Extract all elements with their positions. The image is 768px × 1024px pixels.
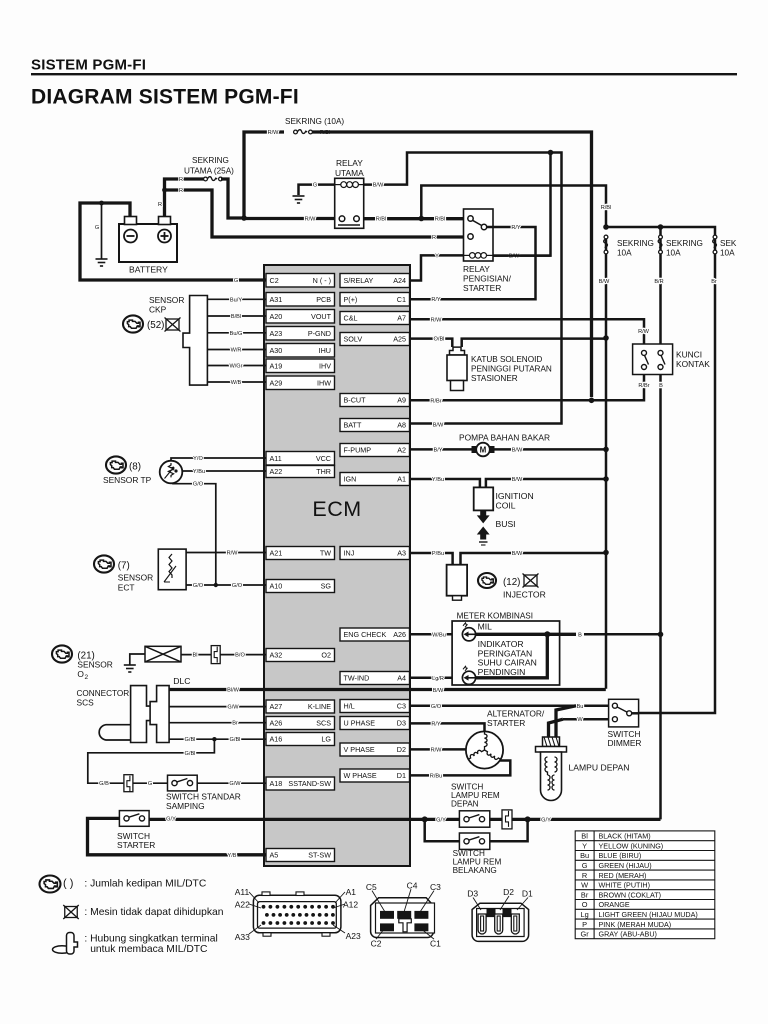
svg-text:R/Bl: R/Bl	[435, 217, 446, 223]
connector A 33-pin	[253, 892, 341, 936]
wire fuse1 B/W down	[605, 254, 608, 689]
svg-text:G/Bl: G/Bl	[230, 737, 241, 743]
svg-text:Bu: Bu	[577, 704, 584, 710]
svg-text:G/Bl: G/Bl	[185, 751, 196, 757]
svg-text:( ): ( )	[63, 878, 73, 890]
switch SW5 standar samping	[168, 775, 198, 791]
svg-text:P: P	[582, 920, 587, 929]
ECM main block	[264, 265, 410, 866]
svg-text:B/W: B/W	[433, 423, 444, 429]
svg-text:A21: A21	[270, 549, 283, 558]
svg-text:10A: 10A	[720, 249, 735, 258]
svg-text:A1: A1	[397, 475, 406, 484]
wire TP VCC Y/O	[171, 458, 266, 461]
ECM pin A26 SCS	[266, 717, 335, 730]
svg-text:G: G	[234, 278, 238, 284]
wire relay starter R/Y to C1	[410, 227, 536, 299]
svg-text:A22: A22	[235, 900, 250, 910]
svg-text:IHV: IHV	[319, 361, 331, 370]
switch dimmer SW4	[609, 699, 639, 727]
wire O2 B/O	[220, 654, 266, 656]
svg-text:TW: TW	[320, 549, 331, 558]
svg-text:R/Y: R/Y	[431, 297, 441, 303]
wire C3 H/L to dimmer	[410, 705, 609, 708]
wire A9 B-CUT to kunci kontak	[410, 367, 645, 400]
ECM pin A21 TW	[266, 547, 335, 560]
svg-text:STARTER: STARTER	[117, 840, 155, 850]
wire CKP Bu/G	[207, 332, 266, 334]
svg-text:P-GND: P-GND	[308, 329, 331, 338]
svg-text:ECM: ECM	[312, 497, 361, 521]
lampu depan L1	[556, 706, 576, 737]
svg-text:BROWN (COKLAT): BROWN (COKLAT)	[599, 890, 662, 899]
svg-text:R/Bu: R/Bu	[430, 773, 442, 779]
svg-text:DLC: DLC	[173, 676, 190, 686]
svg-text:INJ: INJ	[344, 549, 355, 558]
svg-text:B/W: B/W	[373, 183, 384, 189]
ignition coil T1	[474, 487, 494, 510]
svg-text:B/W: B/W	[433, 688, 444, 694]
svg-text:A32: A32	[270, 651, 283, 660]
fuse SEKRING (10A)	[244, 132, 284, 218]
svg-text:Br: Br	[232, 721, 238, 727]
svg-text:H/L: H/L	[344, 702, 355, 711]
sensor CKP connector	[183, 296, 207, 386]
svg-text:: Jumlah kedipan MIL/DTC: : Jumlah kedipan MIL/DTC	[84, 879, 206, 890]
svg-text:SCS: SCS	[316, 719, 331, 728]
svg-text:POMPA BAHAN BAKAR: POMPA BAHAN BAKAR	[459, 433, 550, 443]
svg-text:PENINGGI PUTARAN: PENINGGI PUTARAN	[471, 365, 552, 374]
svg-text:A22: A22	[270, 467, 283, 476]
sensor ECT	[94, 555, 114, 572]
svg-text:10A: 10A	[666, 249, 681, 258]
svg-text:A24: A24	[393, 276, 406, 285]
svg-text:G/O: G/O	[232, 583, 243, 589]
ECM pin C1 P(+)	[340, 293, 410, 307]
svg-text:B/O: B/O	[235, 653, 245, 659]
switch SW6 starter	[119, 811, 149, 827]
svg-text:LG: LG	[321, 735, 331, 744]
svg-text:SEKRING: SEKRING	[666, 239, 703, 248]
svg-text:ALTERNATOR/: ALTERNATOR/	[487, 709, 545, 719]
fuse F3 SEK 10A	[714, 235, 717, 254]
svg-text:K-LINE: K-LINE	[308, 702, 331, 711]
svg-text:G/O: G/O	[431, 704, 442, 710]
svg-text:DIAGRAM SISTEM PGM-FI: DIAGRAM SISTEM PGM-FI	[31, 86, 299, 109]
svg-text:KUNCI: KUNCI	[676, 350, 702, 360]
wire switch starter to A5	[88, 818, 267, 854]
svg-text:G: G	[582, 861, 588, 870]
svg-text:R/Br: R/Br	[638, 383, 649, 389]
wire CKP W/Gr	[207, 365, 266, 367]
svg-text:DIMMER: DIMMER	[608, 738, 642, 748]
wire parallel branch to rear brake switch	[425, 819, 460, 841]
wire relay utama R/Bl to relay starter	[364, 217, 464, 220]
svg-text:R/Bl: R/Bl	[376, 217, 387, 223]
svg-text:ECT: ECT	[118, 583, 135, 593]
svg-text:SISTEM PGM-FI: SISTEM PGM-FI	[31, 57, 146, 74]
svg-text:Bl/W: Bl/W	[227, 688, 240, 694]
wire battery plus up	[165, 179, 205, 217]
svg-text:A2: A2	[397, 446, 406, 455]
svg-text:SCS: SCS	[77, 697, 95, 707]
svg-text:U PHASE: U PHASE	[344, 719, 376, 728]
wire DLC SCS Br	[169, 722, 266, 724]
svg-text:A8: A8	[397, 421, 406, 430]
svg-text:COIL: COIL	[496, 501, 516, 511]
ECM pin A10 SG	[266, 580, 335, 593]
ECM pin A8 BATT	[340, 419, 410, 432]
svg-text:STARTER: STARTER	[463, 283, 501, 293]
svg-text:WHITE (PUTIH): WHITE (PUTIH)	[599, 881, 651, 890]
svg-text:R/W: R/W	[638, 329, 650, 335]
ECM pin A9 B-CUT	[340, 394, 410, 407]
wire fuse3 Br down to switch dimmer	[639, 254, 715, 713]
svg-text:(12): (12)	[503, 577, 520, 588]
svg-text:D1: D1	[522, 889, 533, 899]
svg-text:UTAMA (25A): UTAMA (25A)	[184, 167, 234, 176]
svg-text:R/W: R/W	[268, 130, 280, 136]
svg-text:SENSOR: SENSOR	[77, 660, 112, 670]
svg-text:S/RELAY: S/RELAY	[344, 276, 374, 285]
wire kunci kontak B down	[659, 375, 662, 820]
svg-text:G/W: G/W	[227, 705, 239, 711]
svg-text:RED (MERAH): RED (MERAH)	[599, 871, 647, 880]
svg-text:RELAY: RELAY	[463, 264, 490, 274]
wire B/W branch to relay starter	[493, 153, 551, 256]
wire ECT TW R/W	[186, 552, 266, 554]
svg-text:O/Bl: O/Bl	[434, 337, 445, 343]
pompa bahan bakar M1	[472, 443, 495, 457]
svg-text:R/W: R/W	[431, 747, 443, 753]
svg-text:A9: A9	[397, 396, 406, 405]
ECM pin A11 VCC	[266, 452, 335, 466]
battery B1	[119, 217, 177, 263]
svg-text:BELAKANG: BELAKANG	[453, 866, 497, 875]
svg-text:W/Gr: W/Gr	[229, 364, 242, 370]
wire CKP B/Bl	[207, 315, 266, 317]
svg-text:A5: A5	[270, 851, 279, 860]
svg-text:R/W: R/W	[227, 551, 239, 557]
switch SW2 lampu rem depan	[459, 811, 489, 827]
brake/starter wire across ECM	[149, 818, 660, 821]
svg-text:P(+): P(+)	[344, 295, 358, 304]
alternator G1	[466, 731, 503, 768]
fuse F2 SEKRING 10A	[659, 235, 662, 254]
meter kombinasi box	[452, 621, 559, 685]
wire battery minus to ground/C2	[80, 203, 266, 280]
svg-text:BATT: BATT	[344, 421, 362, 430]
wire R/Bl branch to fuse bus	[421, 186, 606, 219]
svg-text:ENG CHECK: ENG CHECK	[344, 630, 387, 639]
ECM pin A23 P-GND	[266, 327, 335, 341]
ECM pin A31 PCB	[266, 293, 335, 307]
svg-text:A30: A30	[270, 346, 283, 355]
legend blink icon	[40, 876, 61, 893]
svg-text:C&L: C&L	[344, 314, 358, 323]
svg-text:O: O	[77, 669, 84, 679]
svg-text:(52): (52)	[147, 320, 164, 331]
ECM pin D1 W PHASE	[340, 769, 410, 782]
svg-text:SENSOR: SENSOR	[149, 295, 184, 305]
svg-text:KONTAK: KONTAK	[676, 359, 710, 369]
wire relay utama B/W to net	[364, 153, 562, 424]
ECM pin A16 LG	[266, 733, 335, 746]
fuse bus top wire	[606, 218, 715, 235]
svg-text:A10: A10	[270, 582, 283, 591]
svg-text:A3: A3	[397, 549, 406, 558]
svg-text:A26: A26	[270, 719, 283, 728]
svg-text:Lg/R: Lg/R	[432, 676, 444, 682]
svg-text:(8): (8)	[129, 461, 141, 472]
svg-text:TW-IND: TW-IND	[344, 674, 370, 683]
svg-text:W: W	[581, 881, 588, 890]
wire A25 SOLV to solenoid	[410, 339, 453, 347]
svg-text:Y/O: Y/O	[193, 456, 203, 462]
ECM pin D2 V PHASE	[340, 743, 410, 756]
legend jumper icon	[53, 933, 78, 955]
svg-text:SENSOR: SENSOR	[118, 573, 153, 583]
wire O2 to ground	[130, 654, 145, 665]
svg-text:SEK: SEK	[720, 239, 737, 248]
svg-text:B/R: B/R	[654, 279, 663, 285]
svg-text:B: B	[659, 383, 663, 389]
svg-text:Bl: Bl	[581, 832, 588, 841]
wire W lamp to dimmer	[563, 718, 609, 721]
svg-text:A25: A25	[393, 335, 406, 344]
svg-text:BUSI: BUSI	[496, 519, 516, 529]
ECM pin A29 IHW	[266, 376, 335, 390]
svg-text:G/O: G/O	[193, 583, 204, 589]
connector D	[472, 903, 529, 941]
svg-text:IGN: IGN	[344, 475, 357, 484]
ECM pin A19 IHV	[266, 359, 335, 373]
kunci kontak SW1	[633, 344, 673, 375]
svg-text:A23: A23	[346, 931, 361, 941]
svg-text:G/Y: G/Y	[166, 816, 176, 822]
wire D2 V PHASE	[410, 748, 467, 751]
ECM pin A27 K-LINE	[266, 700, 335, 713]
svg-text:A29: A29	[270, 378, 283, 387]
svg-text:2: 2	[85, 674, 89, 681]
svg-text:G/Bl: G/Bl	[185, 737, 196, 743]
wire D3 U PHASE	[410, 723, 485, 731]
svg-text:A31: A31	[270, 295, 283, 304]
ECM pin A4 TW-IND	[340, 672, 410, 685]
svg-text:A16: A16	[270, 735, 283, 744]
wire G/Bl loop to switch standar	[88, 739, 215, 783]
wire TP G/O down	[173, 483, 216, 585]
svg-text:10A: 10A	[617, 249, 632, 258]
svg-text:W PHASE: W PHASE	[344, 771, 377, 780]
svg-text:Y/B: Y/B	[227, 853, 236, 859]
ECM pin A7 C&amp;L	[340, 312, 410, 325]
wire CKP W/R	[207, 349, 266, 351]
svg-text:B/W: B/W	[512, 447, 523, 453]
svg-text:Lg: Lg	[580, 910, 588, 919]
ECM pin A5 ST-SW	[266, 849, 335, 862]
svg-text:SEKRING: SEKRING	[192, 156, 229, 165]
sensor TP	[106, 456, 126, 473]
svg-text:C1: C1	[397, 295, 406, 304]
svg-text:D2: D2	[503, 887, 514, 897]
svg-text:IHU: IHU	[319, 346, 331, 355]
svg-text:C3: C3	[397, 702, 406, 711]
svg-text:B/Bl: B/Bl	[231, 314, 241, 320]
svg-text:C1: C1	[430, 939, 441, 949]
svg-text:IGNITION: IGNITION	[496, 491, 534, 501]
svg-text:R/Y: R/Y	[431, 721, 441, 727]
ECM pin A26 ENG CHECK	[340, 628, 410, 641]
ECM pin A24 S/RELAY	[340, 274, 410, 288]
svg-text:Y: Y	[435, 253, 439, 259]
svg-text:YELLOW (KUNING): YELLOW (KUNING)	[599, 841, 664, 850]
svg-text:BATTERY: BATTERY	[129, 265, 168, 275]
svg-text:SOLV: SOLV	[344, 335, 363, 344]
svg-text:KATUB SOLENOID: KATUB SOLENOID	[471, 355, 542, 364]
relay utama coil ground	[299, 185, 335, 195]
ECM pin A3 INJ	[340, 547, 410, 560]
fuse main SEKRING UTAMA (25A)	[204, 177, 223, 181]
svg-text:INJECTOR: INJECTOR	[503, 590, 546, 600]
svg-text:Bu/G: Bu/G	[230, 331, 243, 337]
svg-text:Gr: Gr	[580, 930, 589, 939]
svg-text:PCB: PCB	[316, 295, 331, 304]
svg-text:C5: C5	[366, 882, 377, 892]
svg-text:D1: D1	[397, 771, 406, 780]
svg-text:C2: C2	[270, 276, 279, 285]
svg-text:A11: A11	[235, 887, 250, 897]
svg-text:VCC: VCC	[316, 454, 331, 463]
svg-text:VOUT: VOUT	[311, 312, 332, 321]
svg-text:A1: A1	[346, 887, 357, 897]
wire battery R to relay starter	[165, 190, 464, 237]
busi arrows	[477, 510, 490, 523]
B/W bus wire across ECM	[169, 688, 606, 691]
svg-text:GREEN (HIJAU): GREEN (HIJAU)	[599, 861, 652, 870]
ECM pin A20 VOUT	[266, 310, 335, 324]
svg-text:R: R	[582, 871, 587, 880]
svg-text:G/Y: G/Y	[436, 817, 446, 823]
svg-text:SSTAND-SW: SSTAND-SW	[288, 779, 331, 788]
svg-text:Bu/Y: Bu/Y	[230, 297, 242, 303]
connector SCS male	[131, 686, 170, 743]
svg-text:R: R	[432, 235, 436, 241]
svg-text:D2: D2	[397, 745, 406, 754]
svg-text:DEPAN: DEPAN	[451, 799, 479, 808]
ECM pin A18 SSTAND-SW	[266, 777, 335, 790]
svg-text:A11: A11	[270, 454, 282, 463]
svg-text:Y/Bu: Y/Bu	[432, 477, 444, 483]
fuse F1 SEKRING 10A	[605, 235, 608, 254]
svg-text:A19: A19	[270, 361, 283, 370]
ECM pin C3 H/L	[340, 700, 410, 713]
svg-text:W/B: W/B	[231, 380, 242, 386]
svg-text:A33: A33	[235, 932, 250, 942]
svg-text:Br: Br	[581, 890, 589, 899]
injector note icons	[478, 573, 496, 588]
svg-text:G/B: G/B	[99, 781, 109, 787]
svg-text:RELAY: RELAY	[336, 158, 363, 168]
svg-text:M: M	[480, 446, 487, 455]
svg-text:IHW: IHW	[317, 378, 331, 387]
svg-text:(7): (7)	[118, 560, 130, 571]
svg-text:C4: C4	[407, 881, 418, 891]
wire A7 C&L R/W to kunci kontak	[410, 319, 645, 344]
svg-text:A26: A26	[393, 630, 406, 639]
svg-text:STASIONER: STASIONER	[471, 374, 518, 383]
wire A26 ENG CHECK / MIL	[410, 633, 463, 636]
svg-text:B/Y: B/Y	[433, 447, 442, 453]
svg-text:A4: A4	[397, 674, 406, 683]
svg-text:CKP: CKP	[149, 305, 167, 315]
svg-text:G/W: G/W	[229, 781, 241, 787]
svg-text:R/Br: R/Br	[430, 398, 441, 404]
svg-text:R/Y: R/Y	[511, 225, 521, 231]
ECM pin C2 N ( - )	[266, 274, 335, 288]
svg-text:O: O	[582, 900, 588, 909]
legend color table	[575, 831, 715, 939]
svg-text:R/Bl: R/Bl	[601, 205, 612, 211]
svg-text:SEKRING (10A): SEKRING (10A)	[285, 117, 344, 126]
svg-text:PENDINGIN: PENDINGIN	[478, 667, 526, 677]
wire R/W node to relay utama	[244, 217, 335, 220]
sensor O2	[52, 645, 72, 662]
connector C	[371, 898, 435, 938]
wire dimmer out to Br	[632, 712, 639, 715]
svg-text:F-PUMP: F-PUMP	[344, 446, 372, 455]
svg-text:LIGHT GREEN (HIJAU MUDA): LIGHT GREEN (HIJAU MUDA)	[599, 910, 698, 919]
svg-text:R: R	[179, 177, 183, 183]
svg-text:D3: D3	[397, 719, 406, 728]
svg-text:Y: Y	[582, 841, 587, 850]
wire A3 INJ to injector	[410, 553, 453, 565]
lamp indikator suhu	[462, 666, 475, 684]
svg-text:ST-SW: ST-SW	[308, 851, 331, 860]
svg-text:R/W: R/W	[305, 217, 317, 223]
svg-text:C3: C3	[430, 882, 441, 892]
svg-text:B/W: B/W	[512, 551, 523, 557]
wire DLC K-LINE G/W	[169, 706, 266, 708]
wire TP THR Y/Bu	[182, 470, 266, 472]
svg-text:B/W: B/W	[512, 477, 523, 483]
svg-text:SG: SG	[321, 582, 332, 591]
svg-text:R: R	[179, 188, 183, 194]
svg-text:THR: THR	[316, 467, 331, 476]
svg-text:SEKRING: SEKRING	[617, 239, 654, 248]
svg-text:G: G	[313, 183, 317, 189]
ECM pin A1 IGN	[340, 473, 410, 486]
wire CKP Bu/Y	[207, 298, 266, 300]
svg-text:A12: A12	[343, 900, 358, 910]
wire A2 F-PUMP to pompa	[410, 448, 473, 451]
svg-text:B-CUT: B-CUT	[344, 396, 367, 405]
wire MIL to B node	[476, 633, 576, 636]
switch SW3 lampu rem belakang	[459, 833, 489, 849]
svg-text:A27: A27	[270, 702, 283, 711]
svg-text:: Hubung singkatkan terminal: : Hubung singkatkan terminal	[84, 934, 217, 945]
wire relay starter B/W right	[493, 254, 551, 257]
svg-text:A20: A20	[270, 312, 283, 321]
wire CKP W/B	[207, 381, 266, 383]
SCS jumper loop	[99, 725, 130, 740]
svg-text:STARTER: STARTER	[487, 718, 525, 728]
svg-text:Y/Bu: Y/Bu	[193, 469, 205, 475]
svg-text:C2: C2	[371, 939, 382, 949]
svg-text:UTAMA: UTAMA	[335, 168, 364, 178]
connector CN5 inline	[502, 810, 512, 829]
svg-text:O2: O2	[321, 651, 331, 660]
